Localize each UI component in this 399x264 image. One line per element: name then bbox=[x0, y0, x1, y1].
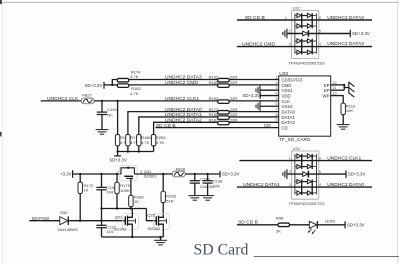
U32 diode row 1 bbox=[297, 13, 301, 17]
U32 diode row 2 bbox=[297, 24, 301, 28]
U34 diode row 5 bbox=[297, 191, 301, 195]
wire: SD CD B row to CD pin bbox=[156, 127, 279, 129]
svg-text:Q25: Q25 bbox=[147, 213, 155, 218]
svg-text:UNDHC2 DATA3: UNDHC2 DATA3 bbox=[165, 75, 202, 81]
svg-text:UNDHC2 CLK1: UNDHC2 CLK1 bbox=[165, 96, 199, 102]
U32 internal right rail bbox=[315, 13, 317, 53]
U34 internal right rail bbox=[315, 154, 317, 194]
svg-text:UNDHC2 CMD: UNDHC2 CMD bbox=[242, 41, 275, 47]
resistor R119 10K bbox=[341, 103, 345, 114]
wire: U33 WP pin 10 to R119 bbox=[331, 96, 344, 104]
svg-text:LED5: LED5 bbox=[325, 218, 336, 223]
ground (sideways) at U33 VSS1 bbox=[260, 89, 279, 91]
wire: U32 pin3-pin4 internal rail bbox=[292, 46, 318, 48]
svg-text:CD: CD bbox=[281, 126, 287, 131]
junction C136 top bbox=[194, 173, 196, 175]
transistor Q21 SI2302 (N-MOSFET) bbox=[123, 213, 139, 229]
svg-text:DATA2: DATA2 bbox=[281, 120, 295, 125]
svg-text:SD+3.3V: SD+3.3V bbox=[109, 157, 127, 162]
svg-text:EP: EP bbox=[324, 88, 330, 93]
ESD array U32 body bbox=[292, 10, 319, 58]
power port SD+3.3V at LED5 bbox=[344, 221, 346, 228]
wire: SD CD B to R98 bbox=[237, 224, 278, 226]
svg-text:10: 10 bbox=[332, 91, 337, 96]
power port SD+3.3V (down) bbox=[117, 152, 119, 156]
svg-text:10K: 10K bbox=[346, 108, 353, 113]
svg-text:WP: WP bbox=[323, 94, 330, 99]
svg-text:51R: 51R bbox=[166, 198, 173, 203]
wire: UNDHC2 DATA3 row bbox=[129, 79, 218, 81]
wire: +3.3V rail to Q31 bbox=[73, 173, 121, 175]
wire: SD+3.3V bar to junction bbox=[104, 84, 117, 86]
wire: Q31 to FB28 rail bbox=[134, 173, 172, 175]
svg-text:VSS2: VSS2 bbox=[281, 104, 293, 109]
wire: D50 to Q21 gate (node X) bbox=[69, 220, 126, 222]
resistor R166 4.7K (pull-up DATA1) bbox=[137, 135, 141, 146]
wire: U34 pin 6 to net UNDHC2_CLK1 bbox=[318, 160, 373, 162]
wire: stub into U34 pin 1 bbox=[239, 160, 291, 162]
wire: U34 pin3-pin4 internal rail bbox=[292, 186, 318, 188]
svg-text:SD+3.3V: SD+3.3V bbox=[85, 83, 103, 88]
svg-text:SD Card: SD Card bbox=[194, 242, 249, 259]
border frame: right edge line bbox=[397, 0, 399, 264]
wire: net UNDHC2_CMD into U32 pin 3 bbox=[237, 46, 292, 48]
svg-text:CMD: CMD bbox=[281, 83, 291, 88]
wire: U34 pin1-pin6 internal rail bbox=[292, 160, 318, 162]
ground (sideways) at U32 pin 2 bbox=[283, 29, 287, 39]
wire: R192 to U33 pin 1 bbox=[229, 79, 279, 81]
svg-text:SI2302: SI2302 bbox=[147, 226, 160, 231]
svg-text:CD: CD bbox=[264, 123, 272, 129]
svg-text:22R: 22R bbox=[230, 96, 237, 101]
wire: U34 pin 4 to net UNDHC2_DATA0 bbox=[318, 186, 373, 188]
wire: UNDHC2 DATA0 row with L-drop bbox=[128, 112, 218, 135]
wire: ground stub to U34 pin 2 through pin 5 bbox=[287, 173, 346, 175]
border frame: left edge line bbox=[1, 0, 3, 264]
svg-text:CLK: CLK bbox=[281, 99, 290, 104]
svg-text:SD+3.3V: SD+3.3V bbox=[222, 172, 240, 177]
resistor R177 4.7K (pull-up CLK) bbox=[115, 135, 119, 146]
svg-text:SD+3.3V: SD+3.3V bbox=[242, 93, 260, 98]
svg-text:104: 104 bbox=[106, 190, 113, 195]
svg-text:TPNUF4202W1T2G: TPNUF4202W1T2G bbox=[289, 201, 325, 206]
svg-text:TF_SD_CARD: TF_SD_CARD bbox=[279, 137, 311, 143]
svg-text:NC: NC bbox=[107, 113, 113, 118]
wire: UNDHC2 CMD row bbox=[129, 84, 218, 86]
svg-text:4.7K: 4.7K bbox=[130, 91, 139, 96]
U34 diode row 4 bbox=[297, 179, 301, 183]
capacitor C144 NC bbox=[101, 101, 103, 112]
svg-text:U32: U32 bbox=[293, 5, 300, 10]
svg-text:Q21: Q21 bbox=[115, 215, 123, 220]
capacitor C138 104 bbox=[207, 174, 209, 181]
svg-text:UNDHC2 CLK1: UNDHC2 CLK1 bbox=[327, 155, 361, 161]
svg-text:1K: 1K bbox=[134, 199, 139, 204]
svg-text:DATA0: DATA0 bbox=[281, 110, 295, 115]
svg-text:4.7K: 4.7K bbox=[156, 140, 165, 145]
junction R179 top bbox=[116, 173, 118, 175]
svg-text:100K: 100K bbox=[120, 188, 130, 193]
ground at bottom rail bbox=[160, 237, 162, 240]
svg-text:VSS1: VSS1 bbox=[281, 88, 293, 93]
U34 cathode bus bars rows 1-2 bbox=[301, 154, 303, 169]
ground below C136 bbox=[188, 196, 201, 201]
power port SD+3.3V at U34 pin 5 bbox=[345, 170, 347, 178]
wire: SD-PSW to D50 bbox=[29, 220, 60, 222]
border frame: top-left corner mark bbox=[0, 0, 2, 4]
junction: CLK pull-up tap bbox=[116, 100, 118, 102]
resistor R163 4.7K (pull-up on CMD) bbox=[117, 84, 129, 88]
svg-text:4.7K: 4.7K bbox=[141, 140, 150, 145]
U34 cathode bus bars rows 4-5 bbox=[301, 179, 303, 195]
resistor R250 4.7K (pull-up DATA2) bbox=[151, 135, 155, 146]
wire: FB28 to SD+3.3V port bbox=[185, 173, 220, 175]
wire: U32 pin1-pin6 internal rail bbox=[292, 19, 318, 21]
resistor R178 4.7K (pull-up DATA0) bbox=[126, 135, 130, 146]
resistor R179 100K bbox=[116, 174, 118, 182]
U34 internal left rail bbox=[294, 154, 296, 194]
svg-text:U33: U33 bbox=[279, 71, 288, 77]
junction node at R174/R163 split bbox=[111, 84, 113, 86]
wire: net SD_CD_B into U32 pin 1 bbox=[237, 19, 292, 21]
ESD array U34 body bbox=[292, 151, 319, 199]
wire: col1 pull-up vertical bbox=[117, 101, 119, 135]
resistor R172 1K bbox=[79, 174, 81, 182]
connector U33 body bbox=[279, 76, 331, 136]
svg-text:1K: 1K bbox=[84, 188, 89, 193]
wire: U33 EP pin 12 bbox=[331, 84, 345, 86]
resistor R174 4.7K (pull-up on DATA3) bbox=[117, 78, 129, 82]
svg-text:SD+3.3V: SD+3.3V bbox=[348, 172, 366, 177]
junction R172 top bbox=[79, 173, 81, 175]
capacitor C130 104 bbox=[101, 174, 103, 188]
junction: C144 tap bbox=[101, 100, 103, 102]
svg-text:2K: 2K bbox=[276, 229, 281, 234]
capacitor C137 104 bbox=[101, 221, 103, 226]
U32 cathode bus bars rows 1-2 bbox=[301, 13, 303, 28]
wire: EP to chassis ground bbox=[344, 87, 349, 89]
ground below C144 bbox=[96, 130, 109, 135]
transistor Q25 SI2302 (N-MOSFET) bbox=[154, 213, 170, 229]
wire: source/bottom rail bbox=[102, 236, 164, 238]
title block rule (bottom right) bbox=[254, 256, 399, 258]
svg-text:D50: D50 bbox=[60, 210, 68, 215]
wire: LED5 to SD+3.3V bbox=[317, 224, 345, 226]
ground (sideways) at U34 pin 2 bbox=[283, 169, 287, 179]
svg-text:UNDHC2 DATA2: UNDHC2 DATA2 bbox=[327, 15, 364, 21]
svg-text:UNDHC2 DATA1: UNDHC2 DATA1 bbox=[243, 182, 280, 188]
svg-text:UNDHC2 DATA0: UNDHC2 DATA0 bbox=[327, 182, 364, 188]
wire: EP common vertical bbox=[343, 85, 345, 90]
wire: UNDHC2 DATA2 row with L-drop bbox=[154, 122, 218, 134]
U34 diode row 2 bbox=[297, 164, 301, 168]
svg-text:EP: EP bbox=[324, 83, 330, 88]
junction R189 top bbox=[162, 173, 164, 175]
svg-text:UNDHC2 DATA1: UNDHC2 DATA1 bbox=[165, 112, 202, 118]
svg-text:UNDHC2 DATA3: UNDHC2 DATA3 bbox=[327, 41, 364, 47]
svg-text:UNDHC2 DATA0: UNDHC2 DATA0 bbox=[165, 107, 202, 113]
U32 diode row 4 bbox=[297, 39, 301, 43]
U32 internal left rail bbox=[294, 13, 296, 53]
junction C130 top bbox=[100, 173, 102, 175]
power port SD+3.3V (switched rail) bbox=[219, 171, 221, 178]
svg-text:VDD: VDD bbox=[281, 94, 290, 99]
svg-text:4.7K: 4.7K bbox=[130, 74, 139, 79]
svg-text:UNDHC2 CMD: UNDHC2 CMD bbox=[165, 80, 198, 86]
U32 middle diode row 3 bbox=[303, 31, 308, 36]
svg-text:104: 104 bbox=[213, 183, 220, 188]
wire: junction up to DATA3 row bbox=[112, 80, 117, 85]
svg-text:C144: C144 bbox=[107, 107, 117, 112]
svg-text:DATA1: DATA1 bbox=[281, 115, 295, 120]
U34 diode row 1 bbox=[297, 154, 301, 158]
U32 diode row 5 bbox=[297, 50, 301, 54]
U34 middle diode row 3 bbox=[303, 172, 308, 177]
ground below C138 bbox=[201, 196, 214, 201]
border frame: left edge tick bbox=[0, 132, 2, 137]
wire: R98 to LED5 bbox=[290, 224, 310, 226]
ground below R119 bbox=[337, 125, 350, 130]
svg-text:+3.3V: +3.3V bbox=[60, 171, 72, 176]
transistor Q31 SI2301 (P-MOSFET) bbox=[120, 166, 138, 181]
svg-text:TPNUF4202W1T2G: TPNUF4202W1T2G bbox=[289, 60, 325, 65]
svg-text:U34: U34 bbox=[293, 146, 301, 151]
svg-text:FB27: FB27 bbox=[82, 92, 92, 97]
wire: UNDHC2 DATA1 row with L-drop bbox=[139, 117, 218, 135]
svg-text:SD CD B: SD CD B bbox=[156, 123, 176, 129]
svg-text:SD CD B: SD CD B bbox=[245, 15, 265, 21]
wire: FB27 to U33 CLK pin bbox=[94, 100, 279, 102]
LED5 emission arrows bbox=[308, 229, 316, 234]
svg-text:SD+3.3V: SD+3.3V bbox=[352, 31, 370, 36]
U32 cathode bus bars rows 4-5 bbox=[301, 39, 303, 55]
svg-text:CD/DATA3: CD/DATA3 bbox=[281, 77, 303, 82]
svg-text:UNDHC2 DATA2: UNDHC2 DATA2 bbox=[165, 118, 202, 124]
wire: U32 pin 4 to net UNDHC2_DATA3 bbox=[318, 46, 373, 48]
svg-text:SI2302: SI2302 bbox=[114, 227, 127, 232]
svg-text:R98: R98 bbox=[276, 216, 284, 221]
power port SD+3.3V at U32 pin 5 bbox=[349, 30, 351, 38]
LED LED5 bbox=[309, 221, 317, 228]
wire: col1 to rail bbox=[117, 146, 119, 152]
wire: H1 down to Q25 gate bbox=[146, 209, 156, 221]
border frame: top edge line bbox=[0, 1, 399, 3]
pull-up common rail to SD+3.3V bbox=[118, 151, 154, 153]
resistor R189 51R bbox=[162, 174, 164, 191]
ground (sideways) at U33 VSS2 bbox=[260, 105, 279, 107]
junction C138 top bbox=[206, 173, 208, 175]
wire: ground stub to U32 pin 2 through pin 5 bbox=[287, 33, 350, 35]
resistor R166b 1K (Q31 gate) bbox=[130, 178, 132, 195]
wire: R119 to ground bbox=[342, 115, 344, 125]
svg-text:1N4148WS: 1N4148WS bbox=[57, 227, 78, 232]
svg-text:12: 12 bbox=[332, 80, 337, 85]
wire: net UNDHC2_DATA1 into U34 pin 3 bbox=[237, 186, 292, 188]
wire: R185 to U33 pin 2 bbox=[229, 84, 279, 86]
chassis ground at EP bbox=[349, 82, 355, 98]
capacitor C136 22uF bbox=[194, 174, 196, 181]
wire: U32 pin 6 to net UNDHC2_DATA2 bbox=[318, 19, 373, 21]
svg-text:SD+3.3V: SD+3.3V bbox=[347, 223, 365, 228]
wire: UNDHC2 CLK from left to FB27 bbox=[41, 100, 82, 102]
wire: gate node horizontal H1 bbox=[102, 208, 147, 210]
wire: U33 EP pin 11 bbox=[331, 89, 345, 91]
